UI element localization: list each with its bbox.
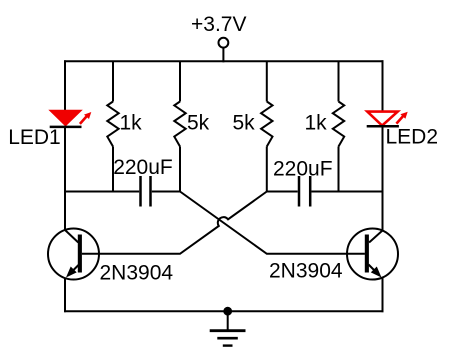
wire LED2 branch top [382, 60, 384, 111]
wire bottom rail [64, 310, 384, 312]
svg-text:LED2: LED2 [386, 126, 439, 149]
wire Q1 emitter to bottom rail [64, 278, 66, 312]
svg-text:5k: 5k [233, 112, 256, 135]
transistor Q2 2N3904 [347, 229, 398, 280]
transistor Q1 2N3904 [48, 229, 99, 280]
wire cross-coupling net1: C1/R2 node to Q2 base [180, 192, 365, 254]
wire top rail [64, 60, 384, 62]
ground [210, 307, 246, 346]
resistor R2 5k [174, 61, 185, 192]
svg-text:LED1: LED1 [8, 126, 61, 149]
wire LED1 cathode to Q1 collector [64, 127, 66, 230]
resistor R1 1k [107, 61, 118, 192]
power terminal +3.7V [219, 38, 229, 63]
svg-text:1k: 1k [305, 112, 328, 135]
svg-text:1k: 1k [120, 112, 143, 135]
svg-text:220uF: 220uF [273, 158, 333, 181]
wire LED2 cathode to Q2 collector [382, 126, 384, 230]
LED LED2 [367, 112, 408, 127]
wire LED1 branch top [64, 60, 66, 111]
capacitor C1 220uF [65, 176, 180, 207]
svg-text:5k: 5k [187, 112, 210, 135]
wire cross-coupling net2: Q1 base to C2/R3 node (with hop) [82, 192, 267, 254]
svg-text:220uF: 220uF [113, 156, 173, 179]
resistor R4 1k [333, 61, 344, 192]
svg-text:2N3904: 2N3904 [269, 260, 343, 283]
LED LED1 [50, 110, 92, 127]
svg-text:+3.7V: +3.7V [191, 13, 246, 36]
capacitor C2 220uF [267, 176, 383, 207]
wire Q2 emitter to bottom rail [382, 278, 384, 313]
svg-text:2N3904: 2N3904 [100, 262, 174, 285]
resistor R3 5k [261, 61, 272, 192]
